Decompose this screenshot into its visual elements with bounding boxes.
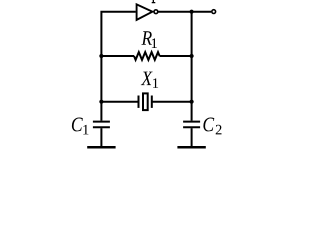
- label C2 - subscript 2: [216, 125, 222, 135]
- junction node (R1 right): [190, 54, 194, 58]
- ground symbol (C2): [177, 146, 205, 149]
- wire: left rail with top wire to inverter input: [101, 12, 135, 121]
- wire: X1 branch left segment: [101, 101, 138, 103]
- label R1 - R: [141, 31, 152, 44]
- label X1 - X: [141, 72, 153, 85]
- wire: R1 branch right segment: [160, 55, 192, 57]
- inverter U1 triangle: [137, 4, 153, 20]
- label 1 (inverter designator, clipped at top edge): [152, 0, 156, 3]
- label C2 - C: [203, 118, 214, 132]
- wire: inverter output to terminal: [158, 11, 211, 13]
- label C1 - subscript 1: [83, 125, 88, 135]
- junction node (top right): [190, 10, 194, 14]
- wire: R1 branch left segment: [101, 55, 134, 57]
- wire: C2 to ground: [191, 128, 193, 146]
- junction node (R1 left): [99, 54, 103, 58]
- crystal X1 (plate-rect-plate): [139, 93, 152, 110]
- output terminal (open circle): [212, 10, 216, 14]
- wire: X1 branch right segment: [152, 101, 192, 103]
- junction node (X1 left): [99, 100, 103, 104]
- ground symbol (C1): [87, 146, 115, 149]
- capacitor C1 plates: [93, 122, 110, 128]
- resistor R1 zigzag: [134, 52, 160, 60]
- inverter output bubble: [154, 10, 158, 14]
- wire: right rail: [191, 12, 193, 121]
- label C1 - C: [72, 118, 83, 132]
- wire: C1 to ground: [100, 128, 102, 146]
- junction node (X1 right): [190, 100, 194, 104]
- capacitor C2 plates: [183, 122, 200, 128]
- label R1 - subscript 1: [152, 38, 157, 48]
- label X1 - subscript 1: [153, 78, 158, 88]
